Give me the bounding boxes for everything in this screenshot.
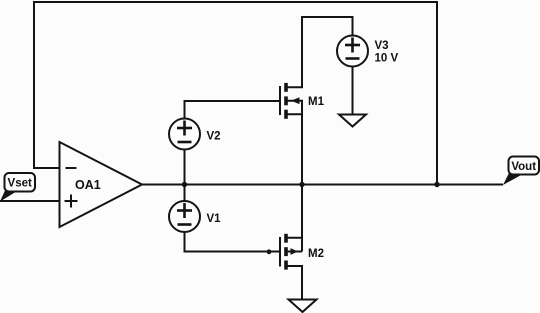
svg-text:V2: V2 (207, 131, 221, 143)
svg-text:V3: V3 (375, 40, 389, 52)
svg-text:V1: V1 (207, 213, 222, 225)
svg-text:10 V: 10 V (375, 53, 399, 65)
svg-text:OA1: OA1 (75, 178, 101, 192)
svg-text:Vout: Vout (511, 161, 536, 173)
svg-text:Vset: Vset (8, 178, 32, 190)
svg-text:M1: M1 (308, 96, 325, 108)
svg-text:M2: M2 (308, 248, 324, 260)
